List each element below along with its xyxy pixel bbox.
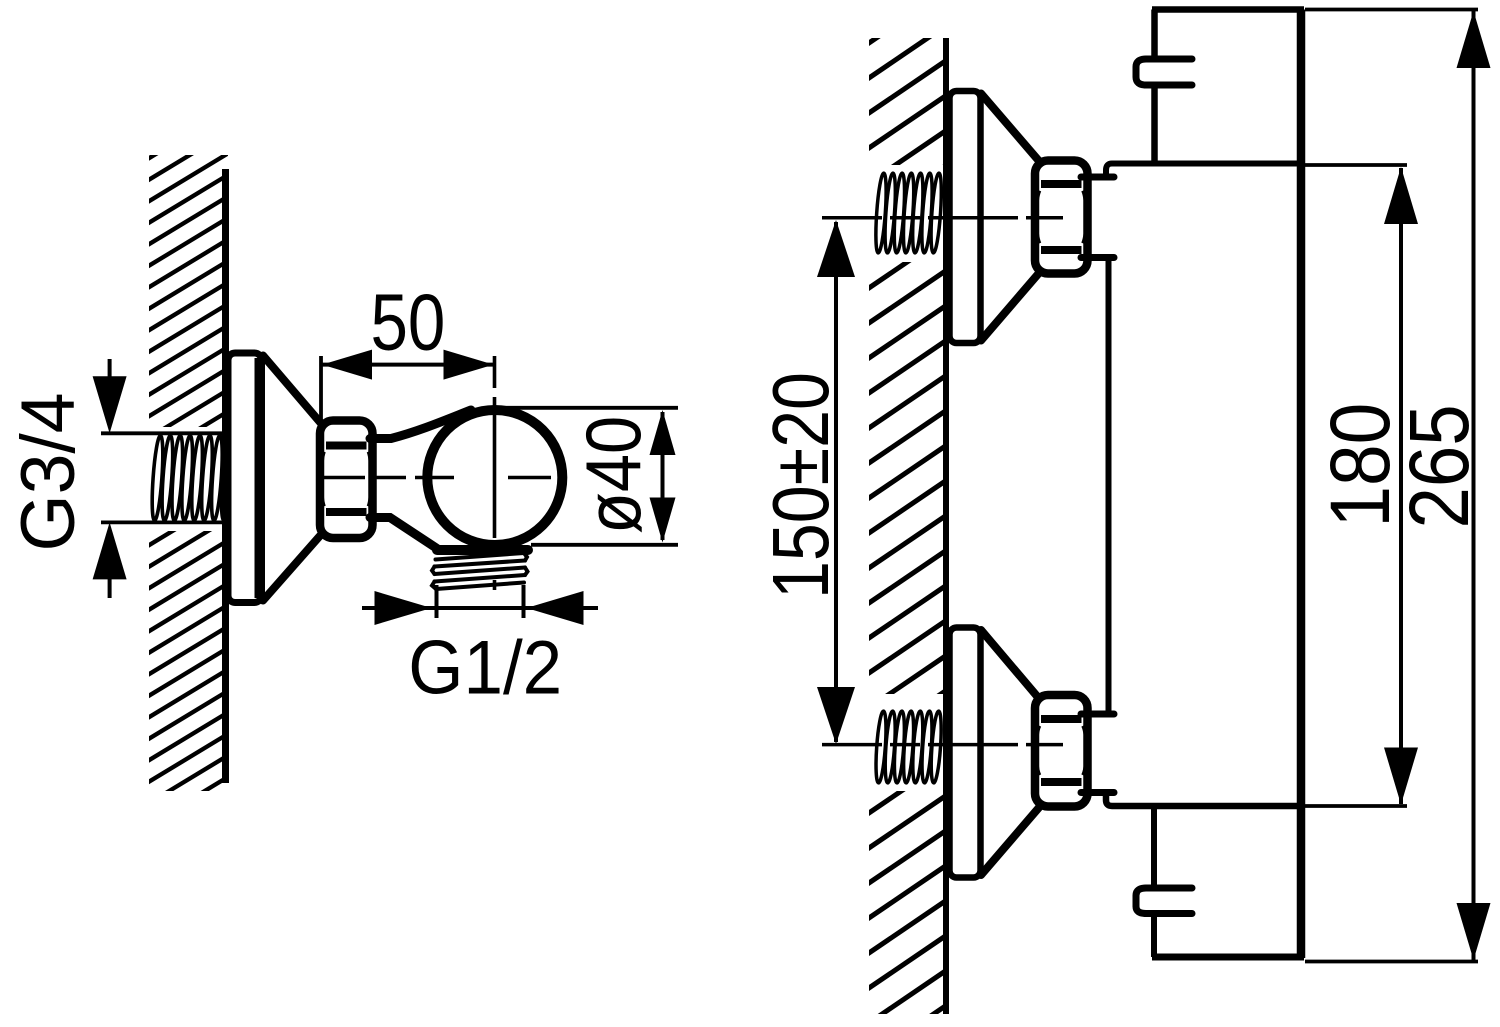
lower cone bottom edge (981, 808, 1039, 876)
escutcheon cone bottom edge (263, 534, 322, 601)
wall face line (left view) (222, 169, 229, 783)
lower port bottom line (1081, 789, 1114, 796)
escutcheon wall plate (left view) (228, 353, 262, 603)
connection nut (left view) (320, 421, 373, 539)
body right edge (1297, 10, 1306, 959)
dimension 180 line and arrows (1399, 168, 1403, 804)
svg-text:G1/2: G1/2 (408, 624, 562, 710)
ball body o40 (427, 410, 562, 545)
dimension 50 extension line (319, 356, 323, 428)
body lower step (1106, 794, 1303, 807)
dimension o40 line and arrows (661, 412, 665, 540)
dimension G3/4 extension lines (101, 431, 231, 435)
svg-text:265: 265 (1392, 404, 1486, 528)
lower connection nut (1035, 695, 1088, 807)
upper cone top edge (981, 94, 1039, 162)
upper cone bottom edge (981, 273, 1039, 341)
horizontal centerline (left view) (316, 476, 560, 480)
lower G3/4 thread (right view) (874, 711, 943, 783)
svg-text:50: 50 (371, 277, 446, 367)
upper retaining clip (1136, 59, 1192, 85)
dimension 180 extension lines (1305, 163, 1407, 167)
upper escutcheon plate (950, 91, 981, 343)
body top edge (1152, 6, 1304, 13)
body bottom edge (1152, 954, 1304, 961)
lower port top line (1081, 711, 1114, 718)
dimension G1/2 line and arrows (362, 606, 598, 610)
upper port bottom line (1081, 254, 1114, 261)
svg-text:G3/4: G3/4 (5, 392, 90, 551)
neck top edge (370, 410, 471, 439)
collar under ball (437, 545, 528, 555)
upper port top line (1081, 174, 1114, 181)
G1/2 outlet thread (432, 553, 528, 589)
lower retaining clip (1136, 888, 1192, 914)
body main left edge (1106, 258, 1112, 712)
dimension G3/4 line and arrows (108, 359, 112, 377)
escutcheon cone top edge (263, 356, 322, 425)
upper connection centerline (822, 216, 1063, 220)
svg-text:150±20: 150±20 (756, 372, 845, 599)
dimension G1/2 extension lines (435, 585, 439, 618)
neck bottom edge (370, 518, 437, 549)
wall (right view) hatching (866, 0, 948, 1027)
dimension 265 line and arrows (1472, 11, 1476, 960)
centerline dash in nipple (493, 580, 497, 590)
lower connection centerline (822, 743, 1063, 747)
dimension 150 line and arrows (834, 222, 838, 742)
lower cone top edge (981, 630, 1039, 699)
vertical centerline of ball (493, 356, 497, 538)
wall face line (right view) (943, 38, 949, 1014)
G3/4 threaded pipe stub (150, 435, 234, 520)
body top-left edge (1151, 10, 1158, 58)
escutcheon plate right face (thick) (255, 358, 262, 598)
dimension 50 line and arrows (322, 363, 494, 367)
dimension o40 extension lines (500, 406, 678, 410)
upper connection nut (1035, 161, 1088, 274)
dimension 265 extension lines (1305, 8, 1478, 12)
wall (left view) hatching (146, 108, 232, 848)
body upper step (1106, 164, 1303, 177)
lower escutcheon plate (950, 628, 981, 878)
body bottom-left edge (1151, 806, 1157, 886)
svg-text:ø40: ø40 (570, 416, 657, 534)
upper G3/4 thread (right view) (874, 173, 943, 253)
